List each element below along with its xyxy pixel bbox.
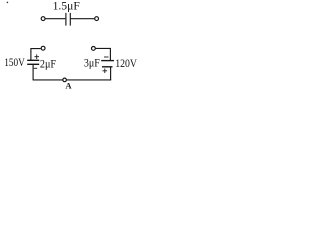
svg-text:A: A — [65, 81, 72, 90]
svg-text:150V: 150V — [4, 57, 25, 69]
svg-text:1.5μF: 1.5μF — [53, 1, 80, 13]
svg-text:120V: 120V — [115, 58, 137, 70]
svg-text:2μF: 2μF — [40, 58, 56, 70]
svg-text:3μF: 3μF — [84, 58, 100, 70]
